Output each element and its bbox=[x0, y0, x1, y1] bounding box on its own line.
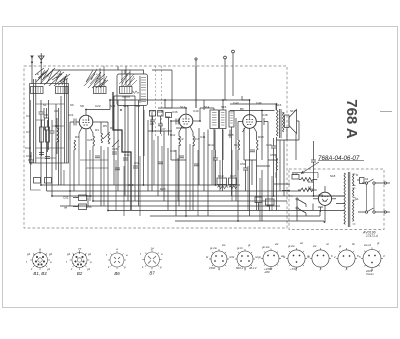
svg-text:C25: C25 bbox=[87, 138, 93, 142]
svg-text:gl-zw: gl-zw bbox=[288, 244, 296, 248]
bus wire y210.5 bbox=[108, 210, 344, 212]
bus wire y191 bbox=[47, 190, 302, 192]
resistor R5 zigzag bbox=[101, 122, 103, 206]
svg-text:B.E: B.E bbox=[319, 193, 324, 197]
volume zigzag vertical bbox=[276, 154, 278, 178]
cathode network B3 bbox=[257, 132, 259, 210]
svg-text:C46: C46 bbox=[256, 101, 262, 105]
svg-text:R40: R40 bbox=[292, 172, 298, 176]
svg-text:-200: -200 bbox=[264, 270, 270, 274]
osc padder caps bbox=[112, 152, 138, 168]
svg-text:R11: R11 bbox=[170, 133, 176, 137]
svg-text:S14: S14 bbox=[204, 105, 210, 109]
top cap wire B1 bbox=[86, 109, 110, 111]
svg-text:C35: C35 bbox=[158, 110, 164, 114]
resistor R6 zigzag bbox=[99, 122, 110, 210]
svg-text:R12: R12 bbox=[178, 137, 184, 141]
conn diagram k1 bbox=[209, 249, 229, 272]
antenna terminal A2 bbox=[38, 53, 44, 84]
svg-text:gl: gl bbox=[377, 241, 380, 245]
svg-text:S11: S11 bbox=[123, 104, 128, 108]
tone cap network bbox=[213, 150, 218, 185]
right margin tick bbox=[380, 111, 392, 113]
IF amplifier tube B2 bbox=[171, 108, 200, 216]
svg-text:gn: gn bbox=[258, 255, 262, 259]
wires under tube B1 bbox=[70, 133, 108, 206]
svg-text:S17: S17 bbox=[290, 109, 296, 113]
bus wire y201 bbox=[93, 200, 287, 202]
conn diagram k2 bbox=[235, 249, 255, 272]
svg-text:g4: g4 bbox=[67, 252, 71, 256]
svg-text:C30: C30 bbox=[124, 153, 130, 157]
oscillator wafer scribble bbox=[119, 72, 137, 86]
output transformer S5 bbox=[277, 104, 284, 210]
svg-text:R14: R14 bbox=[208, 143, 214, 147]
svg-text:R8: R8 bbox=[150, 122, 154, 126]
decouple caps mid bbox=[243, 138, 276, 196]
anode wire B3 to output transformer bbox=[230, 96, 275, 118]
tuning gang rail right bbox=[65, 79, 67, 163]
trimmer arrows bbox=[103, 132, 120, 148]
svg-text:R10: R10 bbox=[218, 174, 224, 178]
conn diagram k4 bbox=[286, 248, 307, 272]
coil L2 box bbox=[56, 87, 69, 94]
svg-text:zw-rd: zw-rd bbox=[363, 243, 371, 247]
svg-text:g1: g1 bbox=[47, 267, 51, 271]
svg-text:C50: C50 bbox=[270, 153, 276, 157]
bus wire y185 bbox=[41, 184, 240, 186]
chassis dashed border bbox=[24, 66, 287, 228]
coil L4 box bbox=[120, 87, 133, 94]
osc extra wires bbox=[110, 66, 148, 201]
extra vertical wires left section bbox=[44, 100, 59, 185]
svg-text:L2: L2 bbox=[308, 185, 312, 189]
coil L1 box bbox=[31, 87, 44, 94]
coupling cap C20 bbox=[262, 118, 268, 206]
osc section verticals bbox=[114, 96, 139, 206]
socket B7 bbox=[142, 247, 162, 276]
phono jack C01 bbox=[73, 195, 88, 210]
svg-text:S10: S10 bbox=[110, 104, 116, 108]
svg-text:R20: R20 bbox=[160, 187, 166, 191]
svg-text:+73V: +73V bbox=[290, 267, 298, 271]
wires to speaker field coil bbox=[276, 113, 299, 140]
power unit dashed border bbox=[289, 169, 384, 230]
top long feed wire bbox=[110, 99, 227, 101]
svg-text:C40: C40 bbox=[193, 109, 199, 113]
svg-text:B1, B3: B1, B3 bbox=[33, 271, 47, 276]
IF transformer S4 bbox=[220, 110, 227, 129]
volume pot R10 box bbox=[217, 178, 228, 189]
wires above IF2 bbox=[200, 100, 249, 201]
diode load resistor R9 bbox=[238, 122, 240, 222]
tuning gang rail left bbox=[34, 79, 36, 163]
leader arrow to power box bbox=[301, 162, 319, 174]
svg-text:C37: C37 bbox=[160, 127, 166, 131]
ground sym left bbox=[28, 152, 34, 164]
conn diagram k7 bbox=[361, 248, 383, 273]
svg-text:C38: C38 bbox=[170, 149, 176, 153]
conn diagram k5 bbox=[310, 248, 331, 272]
rectifier tube B4 bbox=[313, 186, 336, 222]
svg-text:46-1V: 46-1V bbox=[249, 266, 258, 270]
svg-text:R55: R55 bbox=[86, 205, 92, 209]
svg-text:17471-4: 17471-4 bbox=[366, 234, 378, 238]
svg-text:C55: C55 bbox=[128, 183, 134, 187]
svg-text:C36: C36 bbox=[172, 110, 178, 114]
svg-text:C4: C4 bbox=[26, 114, 30, 118]
svg-text:C43: C43 bbox=[233, 101, 239, 105]
svg-text:C48: C48 bbox=[262, 113, 268, 117]
resistor R41 zigzag bbox=[299, 178, 317, 182]
socket B1,B3 bbox=[30, 247, 50, 276]
bus wire y216 bbox=[150, 215, 320, 217]
grid cap B2 bbox=[176, 119, 178, 125]
svg-text:R6: R6 bbox=[110, 126, 114, 130]
socket B6 bbox=[108, 247, 126, 276]
avc heavy wire bbox=[113, 92, 131, 210]
mid extra wires bbox=[148, 70, 186, 160]
svg-text:C60: C60 bbox=[86, 194, 92, 198]
second stage wires bbox=[196, 66, 256, 216]
svg-text:R18: R18 bbox=[258, 135, 264, 139]
svg-text:F: F bbox=[346, 268, 348, 272]
svg-text:R2: R2 bbox=[55, 124, 59, 128]
resistor R42 zigzag bbox=[298, 188, 317, 192]
resistor R3 zigzag bbox=[74, 140, 76, 191]
svg-text:S6: S6 bbox=[70, 103, 74, 107]
detector coupling column bbox=[229, 111, 234, 127]
terminal stub node G bbox=[195, 58, 197, 108]
main schematic bbox=[25, 50, 392, 238]
svg-text:S12: S12 bbox=[135, 104, 141, 108]
terminal stub node P1 bbox=[224, 56, 227, 100]
bus wire y196 bbox=[52, 195, 344, 197]
grid capacitor C5 bbox=[70, 119, 76, 141]
svg-text:S8: S8 bbox=[80, 104, 84, 108]
svg-text:C7: C7 bbox=[26, 130, 30, 134]
gang link dashed bbox=[156, 66, 162, 136]
antenna terminal A1 bbox=[30, 56, 33, 85]
svg-text:14: 14 bbox=[150, 247, 154, 251]
socket B2 bbox=[70, 247, 90, 276]
svg-text:C21: C21 bbox=[68, 113, 74, 117]
svg-text:01: 01 bbox=[365, 177, 369, 181]
svg-text:C9: C9 bbox=[54, 109, 58, 113]
speaker field wires bbox=[230, 104, 299, 160]
svg-text:gr-zw: gr-zw bbox=[210, 246, 218, 250]
svg-text:B7: B7 bbox=[149, 271, 155, 276]
left inner vertical wire bbox=[31, 100, 41, 190]
density wires group A bbox=[64, 140, 272, 221]
svg-text:C49: C49 bbox=[266, 143, 272, 147]
svg-text:R15: R15 bbox=[228, 133, 234, 137]
lamp label L2 bbox=[318, 207, 323, 212]
svg-text:S15: S15 bbox=[221, 105, 227, 109]
svg-text:R9: R9 bbox=[166, 115, 170, 119]
mains switch contacts bbox=[358, 179, 390, 213]
svg-text:bn: bn bbox=[352, 242, 356, 246]
mixer grid components cluster bbox=[150, 111, 172, 136]
svg-text:R41: R41 bbox=[308, 180, 314, 184]
resistor pair left band bbox=[39, 120, 50, 159]
cathode resistor R8 bbox=[193, 132, 195, 210]
electrolytic caps power bbox=[311, 141, 316, 196]
svg-text:B2: B2 bbox=[77, 271, 83, 276]
svg-text:R3: R3 bbox=[75, 135, 79, 139]
coil L3 box bbox=[94, 87, 107, 94]
svg-text:768 A: 768 A bbox=[343, 99, 360, 139]
svg-text:g2: g2 bbox=[88, 252, 92, 256]
screen resistor R7 bbox=[179, 132, 181, 206]
svg-text:gn-zw: gn-zw bbox=[262, 245, 270, 249]
oscillator shield box S2 bbox=[52, 70, 148, 185]
power feed wires bbox=[274, 184, 345, 222]
detector output tube B3 bbox=[238, 100, 262, 216]
svg-text:wt: wt bbox=[300, 241, 303, 245]
svg-text:bl: bl bbox=[283, 255, 286, 259]
svg-text:R17: R17 bbox=[230, 174, 236, 178]
svg-text:1500: 1500 bbox=[209, 266, 216, 270]
svg-text:g1: g1 bbox=[87, 267, 91, 271]
terminal stub node P2 bbox=[232, 50, 235, 96]
svg-text:B6: B6 bbox=[114, 271, 120, 276]
bottom socket diagrams bbox=[30, 247, 162, 277]
scattered decoupling caps bbox=[95, 150, 255, 170]
svg-text:C18: C18 bbox=[26, 154, 32, 158]
svg-text:S1: S1 bbox=[43, 103, 47, 107]
svg-text:gl: gl bbox=[248, 243, 251, 247]
resistor R4 zigzag bbox=[93, 133, 95, 201]
connection diagrams right group bbox=[209, 248, 383, 273]
svg-text:R13: R13 bbox=[194, 137, 200, 141]
svg-text:rd: rd bbox=[326, 242, 329, 246]
svg-text:77: 77 bbox=[78, 247, 82, 251]
svg-text:C33: C33 bbox=[149, 109, 155, 113]
svg-text:C01: C01 bbox=[63, 196, 69, 200]
conn diagram k6 bbox=[336, 248, 357, 272]
loudspeaker bbox=[285, 110, 297, 134]
svg-text:768A-04-06-07: 768A-04-06-07 bbox=[318, 155, 360, 162]
svg-text:tel: tel bbox=[64, 206, 68, 210]
grid wire B2 bbox=[165, 100, 186, 160]
svg-text:2: 2 bbox=[333, 255, 336, 259]
svg-text:R5: R5 bbox=[103, 124, 107, 128]
wire left drops bbox=[41, 96, 61, 196]
capacitor C2 bbox=[50, 120, 55, 144]
svg-text:R4: R4 bbox=[95, 128, 99, 132]
resistor R17 box bbox=[229, 178, 238, 189]
RF section shield box bbox=[30, 84, 69, 164]
band switch wafer S1 scribble bbox=[35, 68, 108, 88]
svg-text:R16: R16 bbox=[234, 143, 240, 147]
IF transformer S3 bbox=[210, 110, 219, 129]
socket pin microlabels bbox=[26, 241, 385, 276]
component value microlabels bbox=[25, 72, 369, 210]
svg-text:S1: S1 bbox=[355, 197, 359, 201]
svg-text:C22: C22 bbox=[95, 104, 101, 108]
hum resistor R40 box bbox=[292, 173, 318, 180]
left bottom component boxes bbox=[34, 178, 41, 184]
mains selector D01 bbox=[357, 178, 364, 184]
capacitor C1 bbox=[39, 100, 44, 126]
svg-text:g2: g2 bbox=[49, 252, 53, 256]
svg-text:S13: S13 bbox=[180, 105, 186, 109]
af wires bbox=[252, 125, 284, 221]
svg-text:C8: C8 bbox=[44, 113, 48, 117]
svg-text:800-1: 800-1 bbox=[236, 266, 244, 270]
resistor R2 zigzag bbox=[57, 118, 59, 154]
svg-text:g4: g4 bbox=[27, 252, 31, 256]
svg-text:B6: B6 bbox=[240, 107, 244, 111]
conn diagram k3 bbox=[261, 249, 281, 272]
svg-text:Volum: Volum bbox=[366, 272, 374, 276]
drawing number 768A-04-06-07 bbox=[318, 155, 364, 162]
svg-text:F: F bbox=[320, 268, 322, 272]
svg-text:C19: C19 bbox=[25, 146, 31, 150]
mains switch arms bbox=[296, 198, 306, 221]
resistor R1 bbox=[45, 108, 49, 142]
ladder rungs left rails bbox=[36, 104, 64, 158]
bus wire y221 bbox=[175, 220, 310, 222]
svg-text:C41: C41 bbox=[200, 135, 206, 139]
triode-hexode tube B1 bbox=[76, 110, 99, 197]
osc coil top stubs bbox=[100, 66, 130, 87]
svg-text:C28: C28 bbox=[112, 147, 118, 151]
bus wire y206 bbox=[60, 205, 280, 207]
svg-text:C51: C51 bbox=[240, 162, 246, 166]
af bottom component boxes bbox=[255, 197, 274, 211]
svg-text:C31: C31 bbox=[134, 161, 140, 165]
mid vertical wires bbox=[152, 112, 204, 216]
power transformer T1 bbox=[344, 172, 356, 227]
svg-text:S16: S16 bbox=[276, 103, 282, 107]
svg-text:S18: S18 bbox=[330, 174, 336, 178]
